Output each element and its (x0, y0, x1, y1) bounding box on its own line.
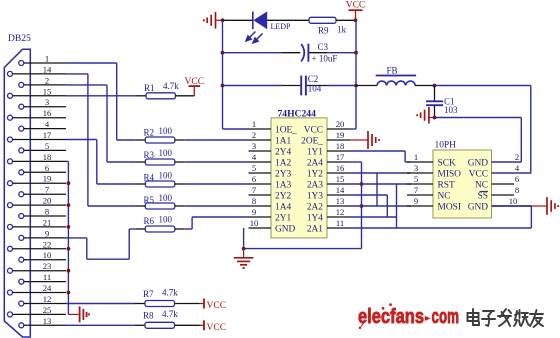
svg-text:2Y2: 2Y2 (275, 191, 291, 201)
svg-text:SS: SS (478, 191, 488, 201)
svg-text:9: 9 (414, 196, 418, 206)
svg-text:VCC: VCC (304, 125, 323, 135)
svg-text:7: 7 (252, 185, 257, 195)
svg-text:R5: R5 (144, 195, 155, 205)
svg-text:10: 10 (509, 196, 518, 206)
svg-text:R8: R8 (143, 311, 154, 321)
svg-text:VCC: VCC (346, 1, 366, 11)
svg-text:C3: C3 (318, 42, 329, 52)
svg-text:MISO: MISO (438, 169, 462, 179)
svg-text:20: 20 (336, 119, 345, 129)
svg-text:19: 19 (336, 130, 345, 140)
svg-text:8: 8 (515, 185, 519, 195)
svg-text:4.7k: 4.7k (162, 309, 178, 319)
svg-text:1Y4: 1Y4 (307, 213, 323, 223)
svg-text:R9: R9 (318, 26, 329, 36)
svg-text:elecfans: elecfans (358, 306, 424, 328)
svg-text:8: 8 (45, 207, 49, 217)
svg-text:2Y1: 2Y1 (275, 213, 291, 223)
svg-text:1: 1 (45, 54, 49, 64)
svg-text:4: 4 (45, 119, 50, 129)
svg-text:R1: R1 (144, 83, 155, 93)
svg-text:22: 22 (43, 239, 52, 249)
svg-text:VCC: VCC (207, 323, 227, 333)
svg-text:3: 3 (252, 141, 256, 151)
svg-text:7: 7 (414, 185, 419, 195)
svg-text:1k: 1k (337, 25, 347, 35)
svg-text:4.7k: 4.7k (163, 81, 179, 91)
svg-text:6: 6 (252, 174, 257, 184)
svg-text:1: 1 (252, 119, 256, 129)
svg-text:16: 16 (336, 163, 345, 173)
svg-text:13: 13 (43, 316, 52, 326)
svg-text:2A3: 2A3 (307, 180, 323, 190)
svg-text:10: 10 (250, 218, 259, 228)
svg-text:6: 6 (515, 174, 520, 184)
svg-text:5: 5 (252, 163, 256, 173)
svg-text:1A3: 1A3 (275, 180, 291, 190)
svg-text:12: 12 (336, 207, 345, 217)
svg-text:GND: GND (275, 224, 296, 234)
svg-text:3: 3 (45, 97, 49, 107)
svg-text:103: 103 (444, 105, 458, 115)
svg-text:10PH: 10PH (435, 141, 457, 151)
svg-text:2OE_: 2OE_ (301, 136, 323, 146)
svg-text:11: 11 (336, 218, 344, 228)
svg-text:R4: R4 (144, 172, 155, 182)
svg-text:100: 100 (159, 148, 173, 158)
svg-text:1A4: 1A4 (275, 202, 291, 212)
svg-text:2: 2 (515, 152, 519, 162)
svg-text:21: 21 (43, 217, 52, 227)
svg-text:R3: R3 (144, 150, 155, 160)
svg-text:16: 16 (43, 108, 52, 118)
svg-text:DB25: DB25 (8, 34, 31, 44)
svg-text:19: 19 (43, 174, 52, 184)
svg-text:14: 14 (43, 64, 52, 74)
svg-text:1A2: 1A2 (275, 158, 291, 168)
svg-text:VCC: VCC (185, 77, 205, 87)
svg-text:9: 9 (45, 228, 49, 238)
svg-text:100: 100 (159, 214, 173, 224)
svg-text:15: 15 (43, 86, 52, 96)
svg-text:RST: RST (438, 180, 455, 190)
svg-text:SCK: SCK (438, 158, 456, 168)
svg-text:11: 11 (43, 272, 51, 282)
svg-text:23: 23 (43, 261, 52, 271)
svg-text:5: 5 (45, 141, 49, 151)
svg-text:18: 18 (336, 141, 345, 151)
svg-text:C2: C2 (308, 74, 319, 84)
svg-text:7: 7 (45, 185, 50, 195)
svg-text:NC: NC (475, 180, 488, 190)
svg-text:MOSI: MOSI (438, 202, 461, 212)
svg-text:R7: R7 (143, 289, 154, 299)
svg-text:2A4: 2A4 (307, 158, 323, 168)
svg-text:GND: GND (468, 158, 489, 168)
svg-text:LEDP: LEDP (271, 22, 292, 31)
svg-text:2A2: 2A2 (307, 202, 323, 212)
svg-text:GND: GND (468, 202, 489, 212)
svg-text:2Y4: 2Y4 (275, 147, 291, 157)
svg-text:4: 4 (515, 163, 520, 173)
svg-text:4: 4 (252, 152, 257, 162)
svg-text:100: 100 (159, 126, 173, 136)
svg-text:NC: NC (438, 191, 451, 201)
svg-text:10: 10 (43, 250, 52, 260)
svg-text:R2: R2 (144, 128, 155, 138)
svg-text:17: 17 (43, 130, 52, 140)
svg-text:100: 100 (159, 193, 173, 203)
svg-text:2: 2 (45, 75, 49, 85)
svg-text:24: 24 (43, 283, 52, 293)
svg-text:VCC: VCC (469, 169, 488, 179)
svg-text:15: 15 (336, 174, 345, 184)
svg-text:4.7k: 4.7k (162, 288, 178, 298)
svg-text:1Y1: 1Y1 (307, 147, 323, 157)
svg-text:3: 3 (414, 163, 418, 173)
svg-text:2: 2 (252, 130, 256, 140)
svg-text:14: 14 (336, 185, 345, 195)
svg-text:VCC: VCC (207, 301, 227, 311)
svg-text:8: 8 (252, 196, 256, 206)
svg-text:17: 17 (336, 152, 345, 162)
svg-text:18: 18 (43, 152, 52, 162)
svg-text:2A1: 2A1 (307, 224, 323, 234)
svg-text:1: 1 (414, 152, 418, 162)
svg-text:74HC244: 74HC244 (278, 109, 317, 120)
svg-text:100: 100 (159, 171, 173, 181)
svg-text:12: 12 (43, 294, 52, 304)
svg-text:1Y2: 1Y2 (307, 169, 323, 179)
svg-text:1OE_: 1OE_ (275, 125, 297, 135)
svg-text:6: 6 (45, 163, 50, 173)
svg-text:1Y3: 1Y3 (307, 191, 323, 201)
svg-text:2Y3: 2Y3 (275, 169, 291, 179)
svg-text:13: 13 (336, 196, 345, 206)
svg-text:R6: R6 (144, 216, 155, 226)
svg-text:FB: FB (386, 66, 397, 76)
svg-text:+ 10uF: + 10uF (312, 53, 338, 63)
svg-text:com: com (432, 306, 460, 328)
svg-text:104: 104 (308, 83, 322, 93)
svg-text:20: 20 (43, 196, 52, 206)
svg-text:1A1: 1A1 (275, 136, 291, 146)
svg-text:25: 25 (43, 305, 52, 315)
svg-text:9: 9 (252, 207, 256, 217)
svg-text:5: 5 (414, 174, 418, 184)
